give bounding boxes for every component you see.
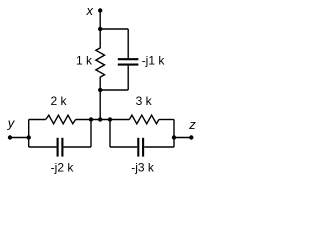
- resistor 2 k: [46, 115, 76, 124]
- wire bottom horizontal of parallel pair: [100, 89, 128, 91]
- svg-text:z: z: [188, 117, 196, 132]
- wire bus left lead: [29, 119, 46, 121]
- wire right loop left vertical: [109, 120, 111, 148]
- junction bus left: [89, 117, 93, 121]
- capacitor -j3 k: [110, 138, 174, 157]
- wire bus right lead: [159, 119, 174, 121]
- svg-text:2 k: 2 k: [50, 94, 67, 108]
- wire left loop right vertical: [90, 120, 92, 148]
- node y terminal: [8, 135, 12, 139]
- svg-text:-j3 k: -j3 k: [131, 160, 155, 174]
- svg-text:1 k: 1 k: [76, 53, 93, 67]
- junction top: [98, 27, 102, 31]
- wire center vertical to bus: [99, 90, 101, 120]
- wire y tap: [10, 137, 29, 139]
- node x terminal: [98, 8, 102, 12]
- capacitor -j1 k: [118, 29, 139, 90]
- junction y tap: [27, 135, 31, 139]
- junction bus center: [98, 117, 102, 121]
- junction bottom of parallel pair: [98, 88, 102, 92]
- wire z tap: [174, 137, 191, 139]
- svg-text:y: y: [7, 116, 16, 131]
- svg-text:-j2 k: -j2 k: [51, 160, 75, 174]
- wire left vertical: [28, 120, 30, 148]
- wire top horizontal to capacitor branch: [100, 28, 128, 30]
- capacitor -j2 k: [29, 138, 91, 157]
- junction z tap: [172, 135, 176, 139]
- wire bus center: [76, 119, 130, 121]
- resistor 3 k: [129, 115, 159, 124]
- wire right vertical: [173, 120, 175, 148]
- resistor 1 k: [96, 29, 105, 90]
- svg-text:3 k: 3 k: [136, 94, 153, 108]
- svg-text:x: x: [86, 3, 94, 18]
- svg-text:-j1 k: -j1 k: [142, 53, 166, 67]
- node z terminal: [189, 135, 193, 139]
- junction bus right: [108, 117, 112, 121]
- wire x terminal to top junction: [99, 11, 101, 30]
